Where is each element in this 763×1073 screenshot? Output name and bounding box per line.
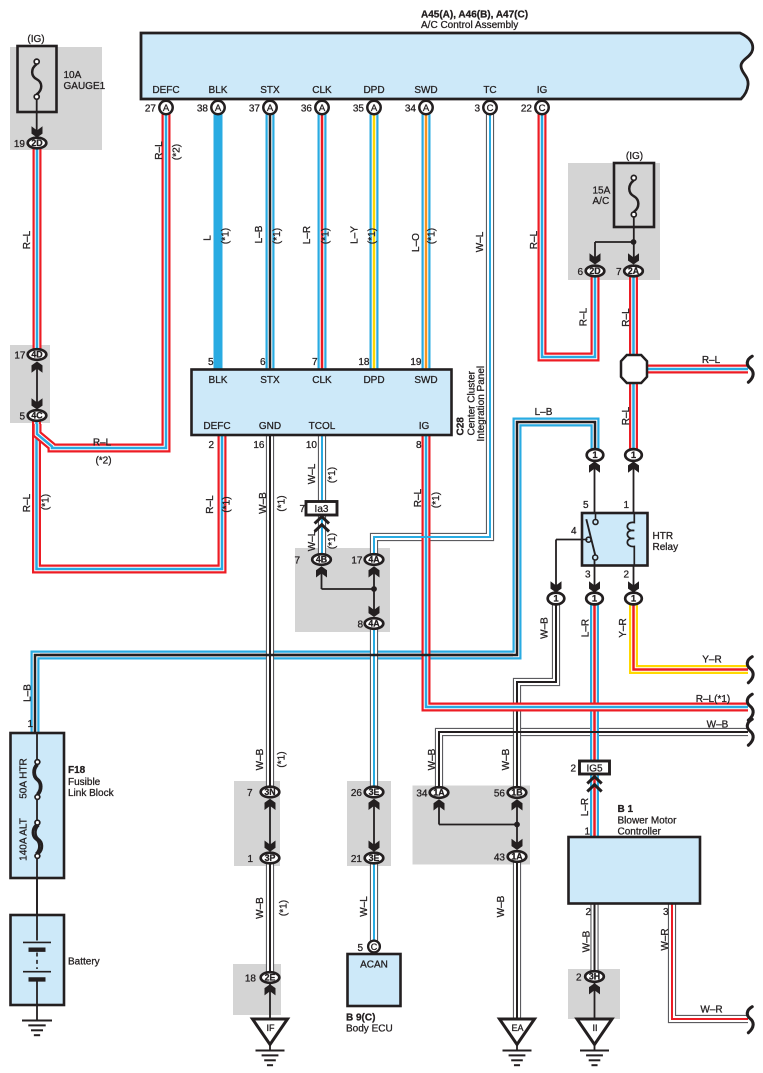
svg-text:IG: IG <box>537 85 548 96</box>
svg-text:A45(A), A46(B), A47(C): A45(A), A46(B), A47(C) <box>421 10 528 21</box>
svg-text:R–L: R–L <box>205 495 216 514</box>
svg-text:R–L: R–L <box>93 438 112 449</box>
svg-text:10: 10 <box>306 440 318 451</box>
svg-text:2: 2 <box>576 973 582 984</box>
svg-text:(*1): (*1) <box>367 228 378 244</box>
svg-text:2D: 2D <box>589 266 600 276</box>
svg-text:HTR: HTR <box>653 531 674 542</box>
svg-text:56: 56 <box>494 789 506 800</box>
svg-text:A/C: A/C <box>593 196 610 207</box>
svg-text:DPD: DPD <box>363 375 384 386</box>
svg-text:CLK: CLK <box>312 85 332 96</box>
svg-text:GND: GND <box>259 421 281 432</box>
svg-text:R–L: R–L <box>578 307 589 326</box>
svg-text:8: 8 <box>416 440 422 451</box>
svg-text:19: 19 <box>410 357 422 368</box>
svg-text:(*1): (*1) <box>327 533 338 549</box>
svg-text:C: C <box>539 103 546 114</box>
svg-text:34: 34 <box>405 104 417 115</box>
svg-text:140A ALT: 140A ALT <box>18 818 29 861</box>
svg-text:3H: 3H <box>589 972 600 982</box>
svg-text:R–L: R–L <box>529 230 540 249</box>
svg-text:Y–R: Y–R <box>618 618 629 637</box>
svg-text:BLK: BLK <box>209 375 228 386</box>
svg-text:1: 1 <box>584 827 590 838</box>
svg-text:W–L: W–L <box>359 896 370 917</box>
svg-text:R–L: R–L <box>154 141 165 160</box>
svg-text:L–B: L–B <box>254 225 265 243</box>
svg-text:Link Block: Link Block <box>68 788 115 799</box>
svg-text:W–B: W–B <box>427 748 438 770</box>
svg-text:36: 36 <box>301 104 313 115</box>
svg-text:W–B: W–B <box>258 492 269 514</box>
svg-text:A/C Control Assembly: A/C Control Assembly <box>421 20 518 31</box>
svg-text:7: 7 <box>294 556 300 567</box>
svg-text:19: 19 <box>14 139 26 150</box>
svg-text:50A HTR: 50A HTR <box>18 758 29 799</box>
svg-text:A: A <box>371 103 378 114</box>
svg-text:Fusible: Fusible <box>68 777 101 788</box>
svg-text:R–L: R–L <box>22 493 33 512</box>
svg-text:21: 21 <box>351 854 363 865</box>
svg-text:1B: 1B <box>511 788 522 798</box>
svg-text:34: 34 <box>416 789 428 800</box>
svg-text:W–R: W–R <box>660 928 671 950</box>
svg-text:W–R: W–R <box>700 1005 722 1016</box>
svg-text:R–L: R–L <box>702 355 721 366</box>
svg-text:BLK: BLK <box>209 85 228 96</box>
svg-text:(*1): (*1) <box>327 467 338 483</box>
svg-text:W–B: W–B <box>496 895 507 917</box>
svg-text:15A: 15A <box>593 186 611 197</box>
svg-text:B 1: B 1 <box>618 804 634 815</box>
svg-text:7: 7 <box>312 357 318 368</box>
svg-text:L–O: L–O <box>411 233 422 252</box>
svg-text:35: 35 <box>353 104 365 115</box>
svg-text:17: 17 <box>14 351 26 362</box>
svg-text:22: 22 <box>521 104 533 115</box>
svg-text:37: 37 <box>249 104 261 115</box>
svg-text:5: 5 <box>19 412 25 423</box>
svg-text:8: 8 <box>357 620 363 631</box>
svg-text:3E: 3E <box>369 853 380 863</box>
svg-text:26: 26 <box>351 788 363 799</box>
svg-text:R–L: R–L <box>621 406 632 425</box>
svg-text:L–Y: L–Y <box>349 226 360 244</box>
svg-text:4B: 4B <box>316 555 327 565</box>
svg-text:DPD: DPD <box>363 85 384 96</box>
svg-text:1: 1 <box>592 450 598 461</box>
svg-text:W–B: W–B <box>707 720 729 731</box>
svg-text:1A: 1A <box>433 788 445 798</box>
svg-text:Blower Motor: Blower Motor <box>618 816 678 827</box>
svg-text:6: 6 <box>577 267 583 278</box>
svg-text:(*1): (*1) <box>220 228 231 244</box>
svg-text:L–B: L–B <box>535 407 553 418</box>
svg-text:R–L: R–L <box>22 230 33 249</box>
svg-text:IG: IG <box>419 421 430 432</box>
svg-text:1: 1 <box>553 594 559 605</box>
svg-text:L: L <box>202 235 213 241</box>
svg-text:Controller: Controller <box>618 827 662 838</box>
svg-text:5: 5 <box>357 943 363 954</box>
svg-text:3P: 3P <box>265 853 276 863</box>
svg-text:W–L: W–L <box>307 530 318 551</box>
svg-text:R–L: R–L <box>413 488 424 507</box>
svg-text:5: 5 <box>583 500 589 511</box>
svg-text:5: 5 <box>208 357 214 368</box>
svg-text:3: 3 <box>585 570 591 581</box>
svg-text:2: 2 <box>570 763 576 774</box>
svg-text:4C: 4C <box>31 411 43 421</box>
svg-text:16: 16 <box>253 440 265 451</box>
svg-text:II: II <box>592 1023 597 1033</box>
svg-text:1A: 1A <box>511 852 523 862</box>
svg-text:7: 7 <box>616 267 622 278</box>
svg-text:L–R: L–R <box>580 619 591 637</box>
svg-text:2E: 2E <box>265 973 276 983</box>
svg-text:10A: 10A <box>64 70 82 81</box>
svg-text:7: 7 <box>299 504 305 515</box>
svg-text:Body ECU: Body ECU <box>346 1024 393 1035</box>
svg-text:2: 2 <box>623 570 629 581</box>
svg-text:18: 18 <box>358 357 370 368</box>
svg-text:1: 1 <box>623 500 629 511</box>
svg-text:SWD: SWD <box>414 375 437 386</box>
svg-text:43: 43 <box>494 853 506 864</box>
svg-text:A: A <box>163 103 170 114</box>
svg-text:Ia3: Ia3 <box>315 504 329 515</box>
svg-text:W–B: W–B <box>255 897 266 919</box>
svg-text:4: 4 <box>571 526 577 537</box>
svg-text:(*1): (*1) <box>221 496 232 512</box>
svg-text:(*1): (*1) <box>276 751 287 767</box>
svg-text:2: 2 <box>208 440 214 451</box>
svg-text:IG5: IG5 <box>586 763 603 774</box>
svg-text:Y–R: Y–R <box>702 655 721 666</box>
svg-text:38: 38 <box>197 104 209 115</box>
svg-text:27: 27 <box>145 104 157 115</box>
svg-text:W–B: W–B <box>255 748 266 770</box>
svg-text:2D: 2D <box>31 138 42 148</box>
svg-text:EA: EA <box>511 1023 523 1033</box>
svg-text:4A: 4A <box>368 619 380 629</box>
svg-text:2A: 2A <box>628 266 640 276</box>
svg-text:Integration Panel: Integration Panel <box>476 366 487 442</box>
svg-text:F18: F18 <box>68 765 86 776</box>
svg-text:Relay: Relay <box>653 542 679 553</box>
svg-text:1: 1 <box>631 450 637 461</box>
svg-text:STX: STX <box>260 85 280 96</box>
svg-text:DEFC: DEFC <box>203 421 230 432</box>
svg-text:L–R: L–R <box>580 798 591 816</box>
svg-text:17: 17 <box>351 556 363 567</box>
svg-text:1: 1 <box>247 854 253 865</box>
svg-text:A: A <box>267 103 274 114</box>
svg-text:(*1): (*1) <box>276 495 287 511</box>
svg-text:IF: IF <box>267 1023 276 1033</box>
svg-text:DEFC: DEFC <box>152 85 179 96</box>
svg-text:3: 3 <box>663 907 669 918</box>
svg-text:R–L: R–L <box>621 308 632 327</box>
svg-text:TC: TC <box>483 85 496 96</box>
svg-text:ACAN: ACAN <box>360 960 388 971</box>
svg-text:(IG): (IG) <box>27 34 44 45</box>
svg-text:W–B: W–B <box>501 748 512 770</box>
svg-text:3N: 3N <box>264 787 275 797</box>
svg-text:(*1): (*1) <box>278 900 289 916</box>
svg-text:(*1): (*1) <box>320 228 331 244</box>
svg-text:W–L: W–L <box>475 231 486 252</box>
svg-text:6: 6 <box>260 357 266 368</box>
svg-text:(*2): (*2) <box>171 144 182 160</box>
svg-text:1: 1 <box>592 594 598 605</box>
svg-text:7: 7 <box>247 788 253 799</box>
svg-text:(*2): (*2) <box>95 456 111 467</box>
svg-text:18: 18 <box>245 974 257 985</box>
svg-text:(IG): (IG) <box>626 151 643 162</box>
svg-text:(*1): (*1) <box>426 228 437 244</box>
svg-text:C: C <box>487 103 494 114</box>
svg-text:C28: C28 <box>456 417 467 436</box>
svg-text:4D: 4D <box>31 350 42 360</box>
svg-text:A: A <box>215 103 222 114</box>
svg-text:C: C <box>371 942 378 952</box>
svg-text:R–L(*1): R–L(*1) <box>696 694 730 705</box>
svg-text:STX: STX <box>260 375 280 386</box>
svg-text:1: 1 <box>631 594 637 605</box>
svg-text:4A: 4A <box>368 555 380 565</box>
svg-text:(*1): (*1) <box>272 228 283 244</box>
svg-text:TCOL: TCOL <box>309 421 336 432</box>
svg-text:(*1): (*1) <box>431 492 442 508</box>
svg-text:W–B: W–B <box>581 930 592 952</box>
svg-text:W–B: W–B <box>539 617 550 639</box>
svg-text:2: 2 <box>585 907 591 918</box>
svg-text:Battery: Battery <box>68 957 100 968</box>
svg-text:3: 3 <box>474 104 480 115</box>
svg-text:SWD: SWD <box>414 85 437 96</box>
svg-text:GAUGE1: GAUGE1 <box>64 81 106 92</box>
svg-text:W–L: W–L <box>307 463 318 484</box>
svg-text:3E: 3E <box>369 787 380 797</box>
svg-text:1: 1 <box>27 719 33 730</box>
svg-text:A: A <box>319 103 326 114</box>
svg-text:L–B: L–B <box>22 684 33 702</box>
svg-text:A: A <box>423 103 430 114</box>
svg-text:CLK: CLK <box>312 375 332 386</box>
svg-text:(*1): (*1) <box>40 494 51 510</box>
svg-text:L–R: L–R <box>302 226 313 244</box>
svg-text:B 9(C): B 9(C) <box>346 1013 375 1024</box>
